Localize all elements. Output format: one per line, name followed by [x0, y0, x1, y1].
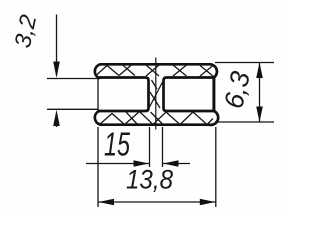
dim 6,3 ext line top [215, 62, 274, 64]
right inner wall thick line [212, 77, 215, 113]
dim 15 ext line left (also 13,8 left ext) [97, 127, 99, 207]
right slot inner outline with web right side [164, 78, 214, 112]
dim 13,8 left arrow [99, 199, 115, 205]
dim 6,3 dimension line [259, 63, 261, 123]
dim 15 dimension line left part [86, 163, 150, 165]
dim 15 ext line B [162, 127, 164, 167]
svg-text:13,8: 13,8 [126, 165, 173, 195]
dim 3,2 ext line bottom [47, 108, 98, 110]
profile top flange: left cap, top edge, right cap [95, 64, 217, 78]
hatch web [150, 80, 163, 108]
dim 3,2 upper arrow (down) [53, 62, 60, 79]
dim 6,3 top arrow (up) [256, 63, 263, 79]
dim 3,2 lower arrow (up) [53, 110, 60, 126]
centerline of web [155, 58, 157, 130]
dim 15 ext line A [149, 127, 151, 167]
dim 15 dimension line right part [163, 163, 191, 165]
svg-text:15: 15 [104, 126, 130, 163]
left inner wall thin line [97, 78, 99, 112]
dim 6,3 bottom arrow (down) [256, 107, 263, 123]
hatch bottom flange [100, 112, 214, 125]
dim 13,8 ext line right [215, 127, 217, 207]
dim 13,8 dimension line [98, 201, 216, 203]
profile bottom flange: right cap, bottom edge, left cap [95, 111, 218, 125]
dim 15 right arrow (left pointing) [163, 160, 179, 166]
dim 6,3 ext line bottom [215, 121, 274, 123]
dim 3,2 ext line top [47, 78, 98, 80]
hatch top flange [97, 65, 214, 77]
dim 15 left arrow (right pointing) [134, 160, 150, 166]
svg-text:3,2: 3,2 [9, 12, 41, 50]
dim 3,2 vertical line lower [56, 113, 58, 127]
svg-text:6,3: 6,3 [218, 69, 256, 112]
left slot inner outline with web left side [98, 78, 149, 112]
dim 13,8 right arrow [200, 199, 216, 205]
dim 3,2 vertical line upper [56, 15, 58, 76]
